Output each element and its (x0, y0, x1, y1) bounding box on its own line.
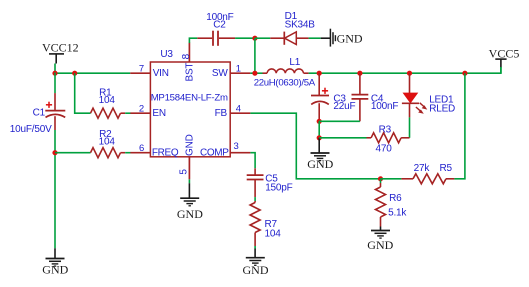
pin 8 BST (181, 43, 196, 82)
node C3/GND/R3 junction (317, 135, 322, 140)
wire C1 top (54, 73, 56, 94)
svg-text:VCC5: VCC5 (489, 46, 520, 60)
resistor R6 (376, 183, 408, 227)
node VCC12/C1 junction (52, 71, 57, 76)
ground GND (C1) (42, 248, 68, 276)
ground GND (R6) (367, 227, 393, 252)
svg-text:8: 8 (181, 53, 192, 59)
ground GND (pin 5) (177, 183, 203, 221)
capacitor C1 (10, 93, 66, 135)
svg-text:150pF: 150pF (265, 183, 292, 194)
node C3/C4 bottom junction (317, 119, 322, 124)
svg-text:GND: GND (243, 263, 269, 277)
svg-text:GND: GND (337, 31, 363, 45)
resistor R2 (91, 129, 126, 158)
svg-text:COMP: COMP (200, 148, 229, 159)
wire SW riser (254, 38, 256, 73)
svg-text:470: 470 (376, 144, 393, 155)
svg-text:EN: EN (152, 108, 166, 119)
wire VCC5 stem (500, 67, 502, 73)
pin 4 FB (215, 103, 251, 119)
svg-text:GND: GND (367, 238, 393, 252)
wire C4 bottom to C3 (319, 120, 360, 122)
power port VCC12 (42, 41, 79, 64)
svg-text:VCC12: VCC12 (42, 41, 79, 55)
resistor R5 (401, 163, 454, 184)
wire FB net (250, 113, 380, 179)
wire COMP to C5 (250, 153, 255, 169)
ground GND (D1, horizontal) (321, 29, 363, 47)
wire D1 to GND (309, 37, 321, 39)
svg-text:R6: R6 (389, 193, 402, 204)
wire C5 to R7 (254, 197, 256, 201)
pin 7 VIN (130, 63, 168, 79)
wire R2 to FREQ pin (125, 152, 130, 154)
svg-text:22uH(0630)/5A: 22uH(0630)/5A (254, 78, 316, 89)
wire C3 bottom (318, 121, 320, 138)
svg-text:U3: U3 (160, 49, 173, 60)
op-amp U3 MP1584EN-LF-Zm body (150, 49, 230, 157)
wire R2 feed (55, 152, 91, 154)
pin 1 SW (212, 63, 251, 79)
ground GND (C3/C4) (307, 138, 333, 171)
node FB/R5/R6 junction (378, 176, 383, 181)
node C1/R2 junction (52, 150, 57, 155)
svg-text:5: 5 (179, 169, 190, 175)
svg-text:MP1584EN-LF-Zm: MP1584EN-LF-Zm (151, 93, 228, 104)
svg-text:SK34B: SK34B (285, 19, 316, 30)
svg-text:FREQ: FREQ (152, 148, 179, 159)
diode D1 SK34B (270, 11, 315, 45)
svg-text:4: 4 (236, 103, 241, 114)
node SW/L1 junction (252, 71, 257, 76)
capacitor C3 (311, 73, 355, 121)
wire SW node to D1 (255, 37, 270, 39)
node rail/LED1 junction (407, 71, 412, 76)
svg-text:3: 3 (234, 141, 239, 152)
wire R1 to EN pin (125, 112, 130, 114)
node rail/R5 junction (462, 71, 467, 76)
svg-text:FB: FB (215, 108, 228, 119)
svg-text:6: 6 (139, 143, 144, 154)
wire rail down to R1 (75, 73, 91, 113)
ground GND (R7) (243, 249, 269, 277)
svg-text:27k: 27k (414, 163, 431, 174)
svg-text:GND: GND (177, 207, 203, 221)
svg-text:104: 104 (99, 137, 116, 148)
svg-text:VIN: VIN (153, 68, 169, 79)
wire SW pin to L1 (250, 72, 262, 74)
svg-text:L1: L1 (289, 57, 300, 68)
svg-text:GND: GND (42, 263, 68, 277)
svg-text:GND: GND (185, 134, 196, 156)
pin 5 GND (179, 134, 196, 179)
svg-text:5.1k: 5.1k (388, 208, 407, 219)
svg-text:RLED: RLED (429, 103, 455, 114)
svg-text:104: 104 (265, 228, 282, 239)
pin 3 COMP (200, 141, 250, 159)
svg-text:100nF: 100nF (371, 101, 398, 112)
svg-text:7: 7 (139, 63, 144, 74)
svg-text:C1: C1 (33, 108, 46, 119)
wire output rail (309, 67, 501, 73)
wire VCC12 stem to rail (54, 64, 56, 74)
svg-text:1: 1 (236, 63, 241, 74)
wire pin5 to GND (188, 179, 190, 183)
svg-text:10uF/50V: 10uF/50V (10, 124, 52, 135)
pin 6 FREQ (130, 143, 178, 159)
svg-text:R5: R5 (440, 163, 453, 174)
node C2/D1/SW junction (252, 36, 257, 41)
svg-text:GND: GND (307, 157, 333, 171)
wire VCC12 rail to VIN (55, 72, 130, 74)
svg-text:BST: BST (185, 63, 196, 82)
capacitor C2 (197, 12, 235, 46)
svg-text:104: 104 (99, 95, 116, 106)
power port VCC5 (489, 46, 520, 67)
resistor R3 (367, 125, 410, 155)
capacitor C4 (352, 73, 399, 121)
capacitor C5 (247, 168, 293, 197)
svg-text:C2: C2 (213, 19, 226, 30)
inductor L1 (254, 57, 316, 89)
wire R5 to VCC5 rail (454, 73, 465, 179)
wire R7 to GND (254, 246, 256, 249)
wire BST to C2 (189, 38, 197, 43)
wire FB node down (380, 179, 382, 183)
svg-text:2: 2 (139, 103, 144, 114)
wire C2 to SW node (235, 37, 255, 39)
wire FB node to R5 (381, 178, 402, 180)
node rail/C4 junction (357, 71, 362, 76)
svg-text:R3: R3 (379, 125, 392, 136)
resistor R1 (91, 87, 126, 118)
node rail/R1 junction (72, 71, 77, 76)
wire LED1 cathode down (409, 117, 411, 137)
pin 2 EN (130, 103, 166, 119)
wire GND node to R3 (319, 137, 366, 139)
node rail/C3 junction (317, 71, 322, 76)
svg-text:22uF: 22uF (333, 101, 355, 112)
LED LED1 RLED (402, 73, 455, 117)
resistor R7 (250, 201, 281, 246)
wire C1 to GND (54, 130, 56, 248)
svg-text:SW: SW (212, 68, 228, 79)
